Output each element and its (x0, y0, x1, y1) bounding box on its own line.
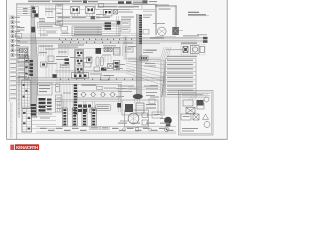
svg-text:KENWORTH: KENWORTH (16, 145, 39, 150)
